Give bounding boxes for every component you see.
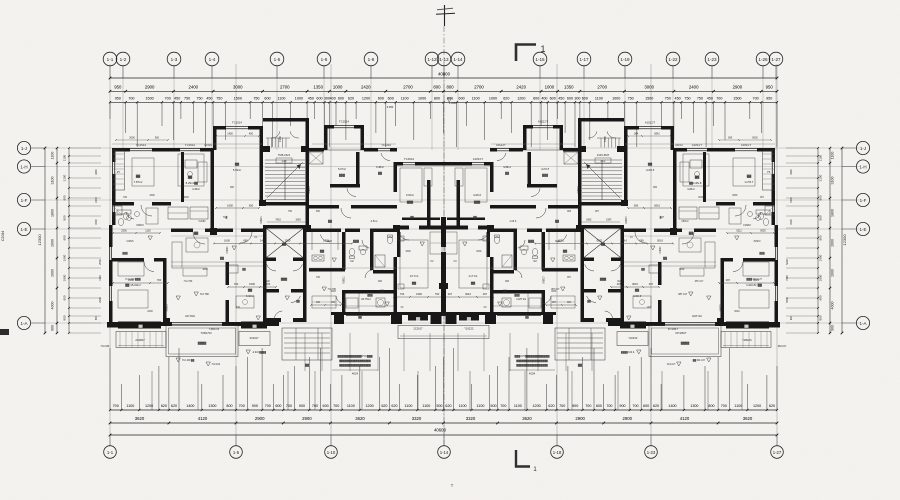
left wing of building	[95, 118, 444, 376]
window bottom bed3	[128, 323, 159, 325]
scatter level marks	[148, 236, 424, 320]
rotated inner col2	[95, 169, 98, 320]
wall: kitchen partition	[342, 232, 346, 312]
door mid room	[341, 208, 351, 218]
wall: dining partition	[226, 262, 230, 322]
wall below hall	[263, 292, 307, 322]
terrace label	[198, 331, 212, 345]
top dimension chain: major bays	[109, 85, 779, 93]
window bottom centre-left	[346, 313, 390, 315]
tag C1516	[204, 144, 311, 224]
bedroom2b label	[233, 162, 241, 172]
child room label	[406, 193, 414, 204]
stair label	[276, 153, 292, 163]
door bath2	[365, 270, 372, 278]
wall: central corridor band	[397, 218, 444, 230]
bed rect bed1	[132, 158, 154, 186]
wall: bottom edge left unit	[118, 322, 241, 326]
right wing of building (mirrored copy)	[443, 118, 792, 376]
bath top-left fixtures	[117, 210, 134, 226]
balcony door label centre	[413, 327, 423, 331]
elevator hall arcs	[267, 264, 303, 302]
hall corridor lines	[171, 262, 263, 266]
stair treads and flight arrow	[265, 131, 305, 200]
wall: bath bottom	[373, 270, 397, 274]
party wall centre	[439, 217, 448, 316]
balcony1 banner	[118, 322, 161, 329]
wall: bed2 right vertical	[260, 126, 264, 205]
door hall room	[274, 311, 282, 320]
bedroom3 label	[125, 278, 141, 287]
wall: left exterior upper	[112, 148, 116, 225]
scatter annotations	[122, 186, 434, 319]
bottom axis bubbles	[104, 435, 784, 458]
living2 lines	[345, 305, 397, 307]
laundry box	[376, 298, 385, 307]
wall: bottom band centre-left	[331, 312, 444, 315]
bed13 side tables	[398, 236, 404, 289]
wall: child room right vertical	[427, 180, 431, 229]
micro dims left room	[112, 229, 161, 233]
wall tag M0821b	[343, 276, 346, 284]
elevator L1 cross	[267, 229, 304, 258]
wall: left exterior lower	[109, 225, 113, 322]
mid room labels	[328, 219, 377, 223]
stove	[312, 232, 338, 261]
living2 label	[361, 289, 384, 301]
wall: bed3 partition	[163, 258, 167, 322]
wall: living bottom band	[163, 322, 172, 326]
level mark living	[194, 292, 209, 296]
top extension lines	[110, 102, 777, 147]
pier bottom 3 (near centre)	[431, 312, 442, 324]
balcony2 banner	[241, 322, 267, 329]
living label	[194, 231, 199, 235]
wall: bottom near steps	[263, 322, 279, 326]
joint blobs	[163, 200, 400, 326]
balcony2 label	[249, 336, 259, 340]
door kitchen	[320, 235, 330, 242]
micro dims kitchen	[310, 301, 342, 306]
wall tag C0924	[226, 246, 229, 254]
door living	[193, 232, 205, 244]
table living	[186, 238, 208, 252]
closet top-left	[168, 207, 208, 219]
storage labels	[338, 165, 384, 177]
hall label	[220, 256, 224, 260]
bath cluster lower-left	[113, 206, 158, 224]
level mark mid	[322, 287, 337, 291]
window child room	[403, 157, 415, 165]
bedroom1 label	[134, 174, 143, 184]
door bed3	[144, 262, 154, 272]
cabinet hall	[312, 296, 336, 308]
north/centre survey mark	[436, 5, 455, 26]
toilet A	[349, 248, 354, 258]
rotated micro dims inner-left	[98, 259, 102, 303]
bath label	[353, 239, 359, 243]
misc level labels above plan	[278, 98, 607, 142]
door bath	[362, 240, 369, 248]
top axis bubbles	[103, 52, 783, 78]
micro dims bedroom13	[393, 292, 444, 298]
ann TJ labels	[185, 315, 220, 331]
wall: bath top band	[345, 229, 397, 233]
note paragraph left	[332, 354, 378, 376]
level mark entry	[176, 358, 195, 362]
level mark terrace	[246, 350, 266, 354]
wall: midband	[309, 268, 397, 294]
stair core top wall	[263, 118, 309, 122]
bottom dimension chain: overall	[109, 428, 779, 437]
kitchen label	[320, 249, 325, 253]
bottom dimension chain: major bays	[109, 416, 779, 425]
wall: bedroom13 divider	[394, 257, 398, 312]
wall: top exterior mid-right	[309, 148, 397, 152]
shower box	[375, 255, 385, 267]
toilet B	[387, 235, 392, 244]
kitchen counter	[345, 294, 359, 313]
small rect hatch vent	[309, 152, 323, 164]
window bottom living	[172, 323, 222, 325]
wardrobe13	[430, 232, 442, 254]
wall: bedroom bottom	[112, 202, 171, 206]
left axis bubbles and dimension chains	[17, 141, 101, 334]
stair core left wall	[260, 160, 264, 205]
window mid-right sill	[324, 149, 364, 151]
ref box	[228, 265, 238, 273]
right axis bubbles and dimension chains	[786, 141, 870, 334]
bed rect bed3	[118, 262, 148, 308]
micro dims bed3	[112, 278, 169, 284]
pier bottom 1	[334, 312, 344, 324]
level mark entry2	[206, 362, 221, 366]
stair core right wall	[306, 118, 310, 228]
micro dims hall	[213, 239, 353, 245]
door kitchen2	[336, 296, 345, 304]
micro dims top left	[115, 136, 169, 140]
section mark 1 (bottom)	[516, 450, 537, 473]
wall: bed3 top	[112, 258, 166, 262]
bay block walls	[324, 125, 364, 150]
wall: top mid exterior	[171, 148, 214, 152]
wall: child room top	[397, 162, 444, 166]
wall: child room left	[394, 162, 398, 192]
desk child	[424, 168, 432, 186]
bottom dimension chain: fine	[109, 404, 778, 411]
window bay	[334, 120, 354, 128]
bedroom2 label	[186, 175, 195, 185]
micro dims hall room	[267, 218, 306, 222]
micro dims dining	[227, 282, 277, 288]
elevator L1 shaft	[263, 225, 307, 261]
wall: kitchen top band	[309, 229, 341, 233]
terrace outline	[166, 326, 238, 357]
rail hatches	[120, 332, 162, 348]
door hall	[241, 232, 252, 243]
wall: living-bed partition vertical	[211, 150, 215, 232]
wall: bedroom13 left	[397, 232, 401, 257]
storage door	[347, 153, 390, 196]
corridor long lines	[171, 236, 443, 268]
bed rect child	[400, 168, 422, 202]
stair corner piers	[262, 146, 309, 152]
door central corridor	[398, 229, 409, 240]
stair core bottom wall	[263, 202, 306, 206]
column grid lines	[110, 64, 777, 446]
section mark 1 (top)	[516, 44, 546, 61]
kitchen upper fixtures	[185, 160, 207, 191]
balcony banner centre	[408, 315, 428, 321]
basin A	[359, 246, 367, 255]
micro dims top bed2	[215, 132, 260, 136]
wall: storage partition	[330, 152, 360, 188]
dining label	[246, 288, 254, 298]
hall window label	[378, 143, 391, 151]
parapet line above top wall	[112, 143, 396, 145]
pier bottom 2	[391, 312, 402, 324]
bottom extension lines	[110, 333, 777, 410]
top dimension chain: fine	[109, 97, 778, 104]
wall: bath partition	[370, 232, 374, 270]
centre balcony rail	[398, 326, 489, 339]
dining table	[236, 296, 254, 308]
balcony2 rail	[239, 332, 270, 346]
wall tag M0823	[166, 304, 169, 312]
vertical centerline	[443, 26, 445, 444]
wall: step block	[213, 126, 263, 150]
top dimension chain: overall	[109, 71, 779, 79]
balcony1 rail	[116, 332, 166, 348]
bedroom13 label	[410, 274, 419, 285]
bed rect bed2	[178, 154, 204, 186]
window top mid	[180, 143, 200, 151]
elevator hall walls	[263, 261, 307, 293]
sheet edge marks	[0, 231, 454, 488]
wall: mid room divider	[309, 205, 397, 209]
door bedroom1	[141, 205, 152, 216]
wall: corridor band	[171, 229, 263, 233]
wall: kitchen column	[181, 152, 184, 202]
window left upper	[112, 162, 114, 212]
window step block	[226, 121, 248, 129]
row grid lines	[31, 148, 860, 323]
balcony PY upper-left	[113, 150, 125, 190]
window TC1514 top-left	[130, 143, 152, 151]
balcony1 labels	[101, 338, 146, 348]
wall: top-left exterior	[112, 148, 171, 152]
centre window between piers	[442, 313, 446, 315]
sofa living	[172, 242, 207, 276]
entrance steps	[282, 328, 332, 367]
corner pier SW	[107, 322, 120, 328]
window left lower	[109, 247, 111, 301]
bed2b dims	[215, 203, 260, 209]
bed rect bedroom13	[400, 240, 428, 288]
